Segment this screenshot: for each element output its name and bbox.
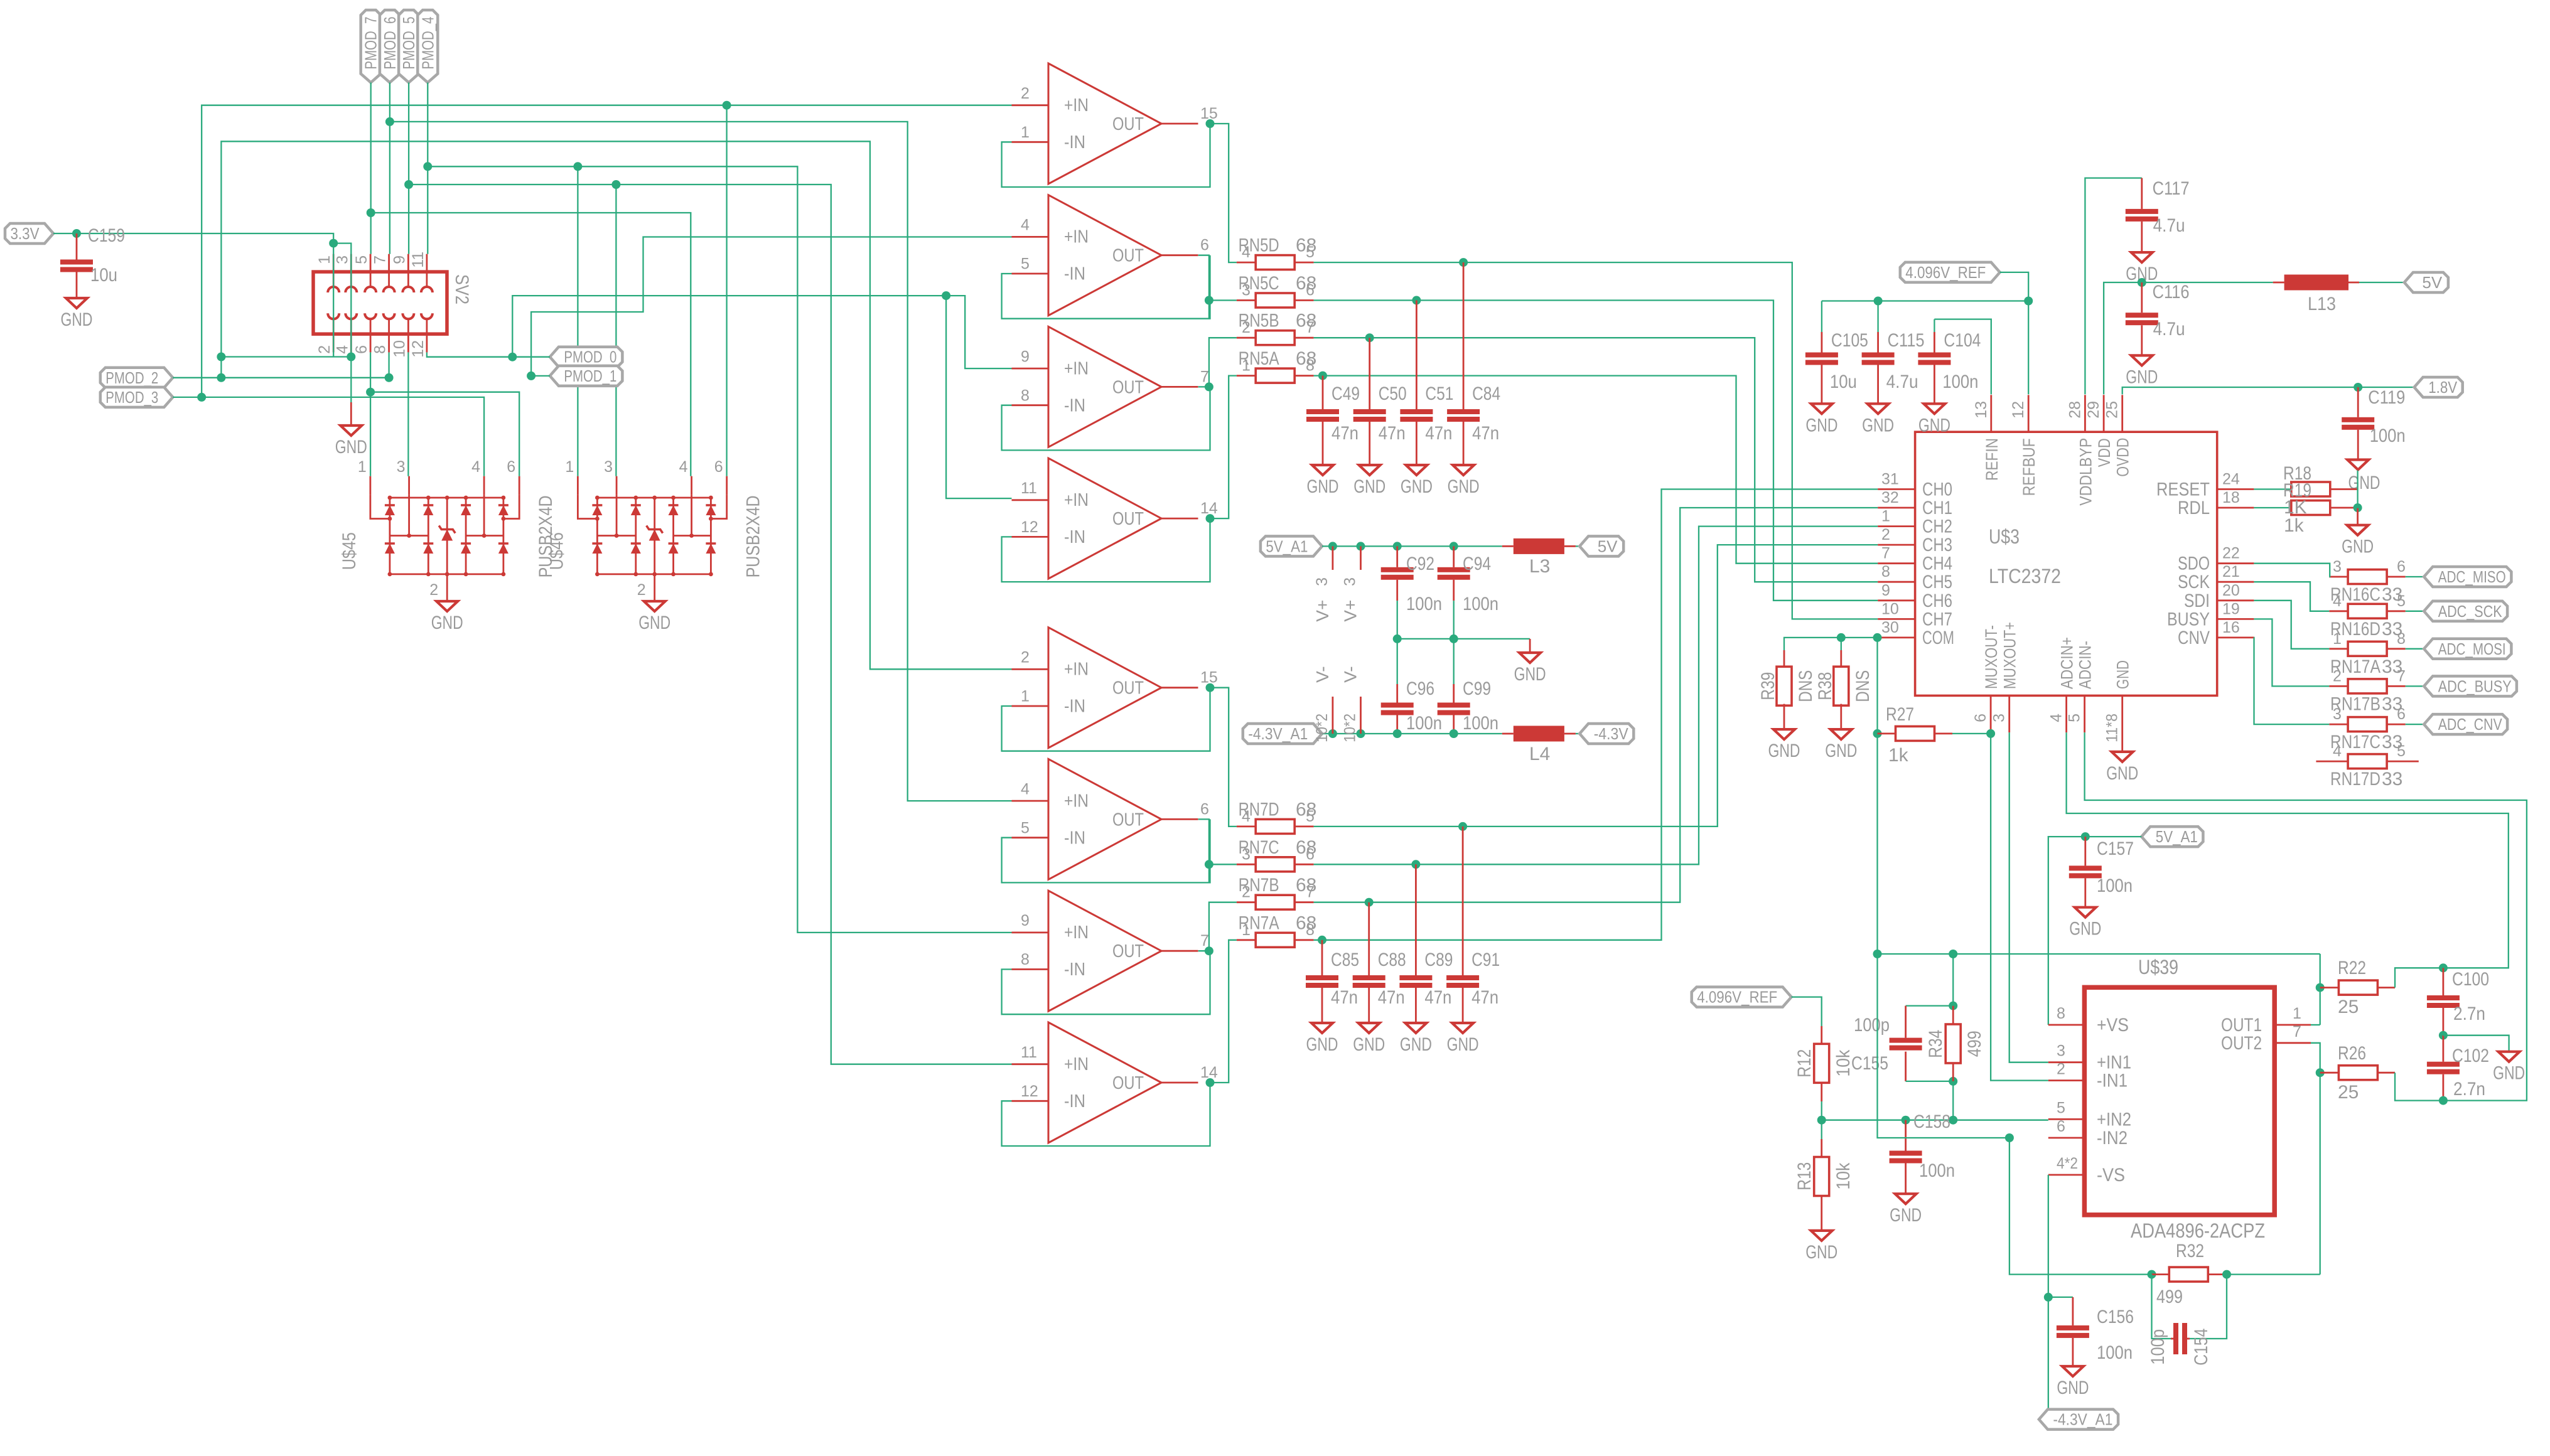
svg-text:-4.3V_A1: -4.3V_A1 — [2053, 1410, 2112, 1429]
ground (C91) — [1452, 1023, 1473, 1033]
svg-text:9: 9 — [1021, 348, 1030, 365]
pin 4 (+IN) of A2 — [1012, 236, 1049, 238]
svg-text:+IN: +IN — [1064, 1054, 1089, 1074]
resistor R12 10k — [1814, 1044, 1829, 1083]
svg-text:10u: 10u — [1830, 372, 1857, 392]
svg-text:C119: C119 — [2368, 387, 2405, 408]
lead of L13 — [2348, 282, 2359, 284]
svg-text:4: 4 — [1021, 780, 1030, 798]
ground (C156) — [2062, 1366, 2084, 1376]
wire A8 OUT to RN7A — [1210, 940, 1237, 1083]
junction — [72, 229, 81, 238]
svg-text:GND: GND — [1514, 664, 1546, 685]
net flag PMOD_2 — [100, 368, 173, 388]
capacitor C96 — [1396, 684, 1398, 703]
svg-text:2: 2 — [1021, 85, 1030, 102]
capacitor C92 — [1396, 546, 1398, 567]
pin 20 (SDI) of U$3 — [2217, 599, 2254, 601]
svg-text:12: 12 — [409, 340, 427, 358]
wire PMOD_6 vertical — [389, 83, 390, 254]
pin 25 (OVDD) of U$3 — [2121, 395, 2123, 432]
wire BUSY to RN17B — [2254, 619, 2329, 686]
ground (C84) — [1453, 465, 1474, 475]
pin 2 (CH3) of U$3 — [1878, 544, 1915, 546]
svg-text:100p: 100p — [1854, 1015, 1890, 1036]
wire to RN5B — [1209, 338, 1237, 387]
supply flag 5V (right) — [2404, 272, 2448, 292]
capacitor C88 47n — [1353, 975, 1385, 980]
wire COM to -IN2 — [1878, 954, 2009, 1138]
svg-text:8: 8 — [2057, 1005, 2065, 1022]
net flag PMOD_0 — [550, 347, 623, 367]
svg-text:10*2: 10*2 — [1342, 714, 1359, 742]
svg-text:-IN: -IN — [1064, 960, 1085, 980]
svg-text:PMOD_6: PMOD_6 — [380, 17, 399, 70]
lead R18 — [2330, 488, 2358, 490]
wire 4.096V_REF to REFBUF — [2000, 272, 2029, 395]
pin 12 of SV2 — [426, 334, 428, 352]
pin 2 of RN7B — [1237, 901, 1256, 903]
op-amp A3 — [1048, 326, 1161, 447]
wire R26 to C102 — [2395, 1073, 2443, 1100]
svg-text:+IN: +IN — [1064, 490, 1089, 510]
wire PMOD_3 to U$45 pin4 — [173, 397, 484, 476]
junction — [2024, 297, 2033, 306]
wire feedback A5 — [1002, 688, 1210, 751]
junction — [1205, 946, 1213, 955]
svg-text:2: 2 — [1242, 884, 1251, 901]
lead R32 — [2152, 1273, 2169, 1275]
resistor R38 DNS — [1840, 650, 1842, 668]
svg-text:REFIN: REFIN — [1982, 438, 2001, 481]
svg-text:R32: R32 — [2176, 1241, 2204, 1261]
wire OUT1 feedback line — [1878, 953, 2320, 955]
svg-text:2: 2 — [2333, 667, 2342, 685]
junction — [1393, 634, 1402, 643]
svg-text:C50: C50 — [1379, 383, 1407, 404]
wire CNV to RN17C — [2254, 638, 2329, 724]
ground (R19) — [2357, 508, 2359, 525]
junction — [1357, 729, 1365, 738]
svg-text:GND: GND — [1768, 741, 1800, 761]
junction — [1328, 542, 1337, 550]
lead R27 — [1878, 733, 1896, 735]
pin 5 of RN5D — [1294, 262, 1314, 264]
wire RN17B to ADC_BUSY — [2406, 685, 2424, 687]
zener diode — [654, 498, 655, 574]
svg-text:4: 4 — [1242, 808, 1251, 825]
pin 5 of RN17D — [2387, 761, 2419, 763]
pin 4 (ADCIN+) of U$3 — [2065, 695, 2067, 732]
junction — [573, 162, 582, 171]
ground (C49) — [1312, 465, 1333, 475]
junction — [347, 353, 355, 361]
svg-text:-IN: -IN — [1064, 1091, 1085, 1111]
svg-text:5: 5 — [1306, 244, 1315, 261]
wire to -4.3V flag — [1576, 733, 1579, 734]
svg-text:6: 6 — [2397, 558, 2406, 575]
svg-text:5: 5 — [1021, 255, 1030, 273]
svg-text:ADC_SCK: ADC_SCK — [2438, 602, 2503, 621]
junction — [1949, 1116, 1957, 1125]
svg-text:+IN: +IN — [1064, 227, 1089, 247]
ground (C88) — [1358, 1023, 1380, 1033]
svg-text:-IN: -IN — [1064, 697, 1085, 717]
svg-text:31: 31 — [1881, 471, 1899, 488]
pin 3 of RN16C — [2329, 576, 2347, 578]
wire C104 to REFIN — [1934, 319, 1991, 395]
svg-text:9: 9 — [1881, 582, 1890, 599]
pin 4*2 (-VS) of U$39 — [2048, 1174, 2085, 1176]
pin 3 of SV2 — [350, 254, 352, 272]
svg-text:100n: 100n — [1919, 1160, 1955, 1181]
capacitor C50 lead — [1369, 338, 1370, 409]
pin 2 (+IN) of A1 — [1012, 104, 1049, 106]
capacitor C116 4.7u — [2141, 282, 2143, 313]
svg-text:R22: R22 — [2338, 958, 2366, 978]
svg-text:2: 2 — [429, 581, 438, 599]
svg-text:MUXOUT+: MUXOUT+ — [2001, 622, 2020, 689]
wire to 5V flag — [1576, 545, 1579, 547]
svg-text:24: 24 — [2222, 471, 2240, 488]
svg-text:GND: GND — [2126, 367, 2158, 387]
svg-text:8: 8 — [1881, 563, 1890, 581]
wire U$45 pin6 — [370, 392, 519, 476]
svg-text:100n: 100n — [1463, 713, 1498, 734]
pin 9 (+IN) of A3 — [1012, 368, 1049, 370]
svg-text:V-: V- — [1341, 666, 1360, 682]
diode — [423, 505, 433, 515]
svg-text:C85: C85 — [1331, 950, 1359, 970]
wire RN7B to CH1 — [1314, 508, 1878, 902]
resistor RN17C — [2348, 717, 2387, 732]
wire RN5C to CH6 — [1314, 301, 1878, 601]
junction — [1873, 633, 1882, 642]
pin 3 of RN7C — [1237, 864, 1256, 865]
svg-text:GND: GND — [2114, 660, 2133, 689]
svg-text:LTC2372: LTC2372 — [1989, 565, 2061, 587]
ground (U$45) — [436, 601, 458, 611]
resistor R26 25 — [2338, 1066, 2377, 1080]
junction — [1318, 936, 1326, 945]
svg-text:+IN: +IN — [1064, 923, 1089, 943]
svg-text:8: 8 — [1306, 357, 1315, 375]
junction — [2439, 1096, 2448, 1105]
svg-text:100n: 100n — [1406, 713, 1442, 734]
junction — [942, 291, 950, 300]
wire MUXOUT+ to +IN1 — [2009, 732, 2048, 1063]
pin 4 of RN7D — [1237, 826, 1256, 828]
svg-text:47n: 47n — [1424, 987, 1451, 1008]
capacitor C88 lead — [1368, 902, 1370, 975]
wire SV2 pin4 to ground — [350, 357, 352, 403]
resistor R18 1k — [2291, 482, 2330, 496]
svg-text:C91: C91 — [1471, 950, 1500, 970]
junction — [527, 372, 535, 380]
svg-text:OUT: OUT — [1112, 810, 1144, 830]
pin 12 (-IN) of A8 — [1012, 1100, 1049, 1102]
ground (C157) — [2075, 907, 2096, 918]
wire feedback A8 — [1002, 1083, 1210, 1146]
svg-text:4*2: 4*2 — [2057, 1155, 2078, 1172]
resistor RN17A — [2348, 641, 2387, 656]
net flag PMOD_5 — [399, 10, 419, 83]
svg-text:C102: C102 — [2452, 1046, 2489, 1066]
svg-text:5V: 5V — [1598, 537, 1618, 555]
svg-text:C159: C159 — [88, 225, 125, 246]
wire feedback A2 — [1002, 255, 1210, 319]
svg-text:11: 11 — [1021, 479, 1037, 497]
svg-text:-IN: -IN — [1064, 527, 1085, 547]
diode — [631, 505, 641, 515]
lead of L4 — [1564, 733, 1576, 735]
svg-text:+IN: +IN — [1064, 791, 1089, 811]
net flag -4.3V_A1 — [1243, 724, 1322, 744]
svg-text:2: 2 — [1881, 526, 1890, 543]
ground (C116) — [2131, 355, 2153, 365]
net flag PMOD_7 — [361, 10, 381, 83]
ground (R39) — [1773, 729, 1795, 739]
svg-text:OVDD: OVDD — [2114, 438, 2133, 477]
pin 3 of RN17C — [2329, 724, 2347, 725]
lead of L13 — [2273, 282, 2284, 284]
wire MUXOUT- to -IN1 — [1991, 732, 2048, 1081]
supply flag 3.3V — [5, 223, 53, 244]
svg-text:6: 6 — [1306, 845, 1315, 863]
svg-text:100n: 100n — [2097, 1342, 2133, 1363]
wire RN7A to CH0 — [1314, 490, 1878, 940]
svg-text:CH1: CH1 — [1922, 498, 1952, 518]
pin 6 (MUXOUT-) of U$3 — [1990, 695, 1992, 732]
wire to GND — [2443, 1036, 2509, 1052]
pin 13 (REFIN) of U$3 — [1990, 395, 1992, 432]
svg-text:GND: GND — [1805, 415, 1837, 436]
svg-text:5: 5 — [2397, 742, 2406, 760]
wire to RN7B — [1209, 902, 1237, 951]
wire to C115 — [1877, 301, 1878, 333]
net flag -4.3V_A1 — [2039, 1410, 2118, 1430]
pin 24 (RESET) of U$3 — [2217, 488, 2254, 490]
wire PMOD_5 to op-amp A8 +IN — [409, 185, 1011, 1064]
svg-text:25: 25 — [2338, 1082, 2359, 1103]
svg-text:100n: 100n — [2370, 426, 2406, 446]
junction — [2439, 963, 2448, 972]
svg-text:SV2: SV2 — [451, 274, 472, 304]
wire SDO to RN16C — [2254, 564, 2330, 577]
pin 8 of RN5A — [1294, 375, 1314, 377]
svg-text:8: 8 — [1306, 921, 1315, 939]
svg-text:V+: V+ — [1313, 600, 1332, 622]
wire C154 right — [2190, 1275, 2227, 1339]
junction — [1411, 860, 1420, 869]
capacitor C100 2.7n — [2442, 968, 2444, 995]
svg-text:SCK: SCK — [2178, 572, 2210, 592]
op-amp A2 — [1048, 195, 1161, 316]
junction — [1205, 860, 1213, 869]
wire RN17A to ADC_MOSI — [2406, 648, 2424, 650]
capacitor C51 47n — [1400, 409, 1433, 414]
diode — [385, 505, 395, 515]
pin 6 of RN7C — [1294, 864, 1314, 865]
svg-text:3: 3 — [1242, 845, 1251, 863]
svg-text:C92: C92 — [1406, 554, 1434, 574]
diode — [461, 543, 471, 554]
svg-text:C99: C99 — [1463, 678, 1491, 699]
junction — [1902, 1116, 1910, 1125]
svg-text:V+: V+ — [1341, 600, 1360, 622]
svg-text:GND: GND — [1447, 1034, 1479, 1055]
pin 6 of RN16C — [2387, 576, 2406, 578]
svg-text:OUT2: OUT2 — [2221, 1033, 2262, 1054]
junction — [2439, 1031, 2448, 1040]
junction — [1949, 950, 1957, 958]
pin 14 (OUT) of A4 — [1161, 518, 1198, 520]
lead R19 — [2330, 507, 2358, 509]
net flag ADC_BUSY — [2424, 676, 2517, 696]
junction — [2044, 1293, 2053, 1302]
lead R26 — [2378, 1072, 2395, 1074]
svg-text:U$3: U$3 — [1989, 525, 2020, 548]
pin 7 (OUT) of A7 — [1161, 950, 1198, 952]
svg-text:1.8V: 1.8V — [2428, 378, 2458, 397]
ground (U$3 GND pin) — [2112, 752, 2133, 762]
pin 6 of RN17C — [2387, 724, 2406, 725]
wire L13 to 5V — [2359, 282, 2404, 283]
svg-text:25: 25 — [2104, 401, 2121, 419]
svg-text:R27: R27 — [1886, 704, 1914, 725]
junction — [2222, 1270, 2231, 1279]
svg-text:499: 499 — [2156, 1287, 2183, 1307]
wire divider mid — [1821, 1101, 1822, 1139]
wire C155 bottom — [1906, 1081, 1954, 1082]
pin 8 of RN7A — [1294, 939, 1314, 941]
svg-text:32: 32 — [1881, 489, 1899, 506]
pin 5 of SV2 — [370, 254, 372, 272]
svg-text:11*8: 11*8 — [2104, 714, 2121, 742]
capacitor C119 100n — [2357, 387, 2359, 417]
junction — [1318, 372, 1327, 380]
wire RN16C to ADC_MISO — [2406, 576, 2424, 577]
wire to C104 — [1934, 319, 1935, 332]
svg-text:+IN: +IN — [1064, 660, 1089, 680]
junction — [1206, 1078, 1215, 1087]
wire A3 OUT — [1198, 386, 1209, 387]
capacitor C89 lead — [1415, 864, 1417, 975]
wire RN5A to CH4 — [1314, 376, 1878, 564]
junction — [1873, 950, 1882, 958]
junction — [1450, 729, 1458, 738]
svg-text:PMOD_3: PMOD_3 — [105, 388, 158, 407]
wire 3.3V — [53, 233, 333, 244]
lead R26 — [2320, 1072, 2338, 1074]
junction — [1365, 333, 1374, 342]
svg-text:C155: C155 — [1851, 1053, 1888, 1074]
svg-text:OUT: OUT — [1112, 377, 1144, 397]
capacitor C91 lead — [1462, 827, 1464, 975]
svg-text:13: 13 — [1972, 401, 1990, 419]
svg-text:CH3: CH3 — [1922, 535, 1952, 555]
pin 1 (OUT1) of U$39 — [2274, 1024, 2311, 1026]
svg-text:8: 8 — [2397, 630, 2406, 648]
junction — [2354, 503, 2362, 512]
svg-text:12: 12 — [1021, 1083, 1038, 1100]
resistor RN17D — [2348, 754, 2387, 769]
svg-text:22: 22 — [2222, 545, 2240, 562]
pin 3 of RN5C — [1237, 299, 1256, 301]
pin 4 of RN5D — [1237, 262, 1256, 264]
svg-text:1: 1 — [1881, 508, 1890, 525]
junction — [1357, 542, 1365, 550]
svg-text:16: 16 — [2222, 619, 2240, 636]
junction — [366, 388, 375, 397]
svg-text:6: 6 — [507, 458, 515, 476]
wire ground rail — [1397, 638, 1530, 640]
diode array U$45 (PUSB2X4D) — [370, 476, 372, 495]
net flag PMOD_1 — [550, 366, 623, 386]
wire COM to R38 — [1841, 638, 1842, 650]
svg-text:REFBUF: REFBUF — [2020, 438, 2038, 496]
svg-text:7: 7 — [2397, 667, 2406, 685]
resistor R32 499 — [2169, 1267, 2208, 1282]
svg-text:18: 18 — [2222, 489, 2240, 506]
svg-text:1: 1 — [358, 458, 367, 476]
svg-text:C157: C157 — [2097, 838, 2134, 859]
svg-text:PMOD_0: PMOD_0 — [564, 348, 616, 367]
pin 19 (BUSY) of U$3 — [2217, 618, 2254, 620]
svg-text:C158: C158 — [1913, 1111, 1950, 1132]
junction — [1949, 1077, 1957, 1086]
junction — [367, 208, 375, 217]
junction — [1206, 683, 1215, 692]
svg-text:30: 30 — [1881, 619, 1899, 636]
svg-text:PMOD_4: PMOD_4 — [418, 17, 437, 70]
capacitor C157 100n — [2084, 837, 2086, 865]
resistor R34 499 — [1945, 1024, 1961, 1063]
inductor L4 — [1514, 726, 1564, 742]
diode — [669, 543, 679, 554]
net flag ADC_SCK — [2424, 601, 2507, 621]
svg-text:GND: GND — [2342, 537, 2374, 557]
svg-text:47n: 47n — [1425, 423, 1452, 444]
capacitor C104 — [1918, 353, 1950, 358]
pin 1 of RN7A — [1237, 939, 1256, 941]
svg-text:DNS: DNS — [1795, 670, 1816, 702]
svg-text:C96: C96 — [1406, 678, 1434, 699]
svg-text:R26: R26 — [2338, 1043, 2366, 1064]
svg-text:5V_A1: 5V_A1 — [1266, 537, 1308, 555]
ground (C105) — [1811, 404, 1832, 414]
pin 6 of SV2 — [370, 334, 372, 352]
wire A7 OUT — [1198, 950, 1209, 951]
svg-text:25: 25 — [2338, 997, 2359, 1017]
wire RN7D to CH3 — [1314, 545, 1878, 827]
svg-text:2: 2 — [316, 345, 333, 354]
wire PMOD_1 to op-amp A2 +IN — [531, 237, 1011, 376]
resistor network element RN7D 68 — [1256, 819, 1294, 833]
diode array U$46 (PUSB2X4D) — [577, 476, 579, 495]
svg-text:CH7: CH7 — [1922, 609, 1952, 629]
capacitor C89 47n — [1399, 975, 1432, 980]
pin 5 of RN16D — [2387, 610, 2406, 612]
capacitor C99 — [1453, 684, 1455, 703]
svg-text:100n: 100n — [1463, 594, 1498, 614]
IC U$3 LTC2372 — [1915, 432, 2217, 695]
wire R27 to MUXOUT- — [1952, 733, 1991, 734]
pin 7 of RN17B — [2387, 685, 2406, 687]
pin 21 (SCK) of U$3 — [2217, 581, 2254, 583]
pin 11 of SV2 — [426, 254, 428, 272]
pin 2 of U$45 — [446, 574, 448, 601]
